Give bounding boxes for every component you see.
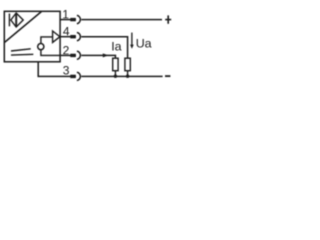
inductive sensing element symbol: diamond bbox=[11, 13, 23, 27]
resistor R-Ia bottom lead bbox=[114, 71, 116, 77]
output node circle bbox=[38, 44, 44, 50]
Ua voltage arrow (down) bbox=[131, 33, 133, 47]
svg-text:3: 3 bbox=[63, 64, 70, 78]
wire 1 (pin 1 to plus) bbox=[60, 19, 76, 21]
wire 4 (pin 4 to Ua load) bbox=[60, 36, 76, 38]
connector pin 2 socket arc bbox=[77, 51, 80, 59]
wire 3 (pin 3 / minus rail) bbox=[38, 62, 76, 77]
inductive sensing element symbol: diamond center line bbox=[15, 13, 17, 27]
switch contact upper line bbox=[11, 49, 31, 51]
connector pin 1 socket arc bbox=[77, 15, 80, 23]
resistor R-Ia bbox=[113, 58, 118, 70]
connector pin 2 male contact bbox=[70, 54, 76, 57]
wire 2 (pin 2 to Ia load) bbox=[60, 54, 76, 56]
svg-text:Ia: Ia bbox=[111, 39, 121, 53]
connector pin 3 male contact bbox=[70, 75, 76, 78]
switch contact lower line bbox=[11, 53, 33, 56]
wire: circle top riser to amplifier bbox=[41, 37, 53, 44]
resistor R-Ua bottom lead bbox=[127, 71, 129, 77]
svg-text:4: 4 bbox=[63, 25, 70, 39]
svg-text:1: 1 bbox=[62, 7, 69, 21]
wire: circle bottom to pin2 exit bbox=[41, 50, 60, 56]
inductive sensing element symbol: left bar bbox=[8, 14, 10, 27]
sensor body box U1 bbox=[4, 11, 60, 62]
svg-text:2: 2 bbox=[63, 43, 70, 57]
connector pin 4 male contact bbox=[70, 35, 76, 38]
connector pin 3 socket arc bbox=[77, 72, 80, 80]
op-amp output driver triangle bbox=[53, 31, 60, 42]
connector pin 1 male contact bbox=[70, 18, 76, 21]
box diagonal divider bbox=[4, 12, 41, 43]
svg-text:Ua: Ua bbox=[136, 37, 152, 51]
junction dot at R-Ia / wire 3 bbox=[114, 75, 117, 78]
Ia current arrow on wire 2 bbox=[103, 53, 109, 57]
resistor R-Ua bbox=[125, 58, 130, 70]
junction dot at R-Ua / wire 3 bbox=[126, 75, 129, 78]
minus terminal bbox=[165, 75, 170, 77]
plus terminal bbox=[165, 19, 171, 21]
connector pin 4 socket arc bbox=[77, 33, 80, 41]
